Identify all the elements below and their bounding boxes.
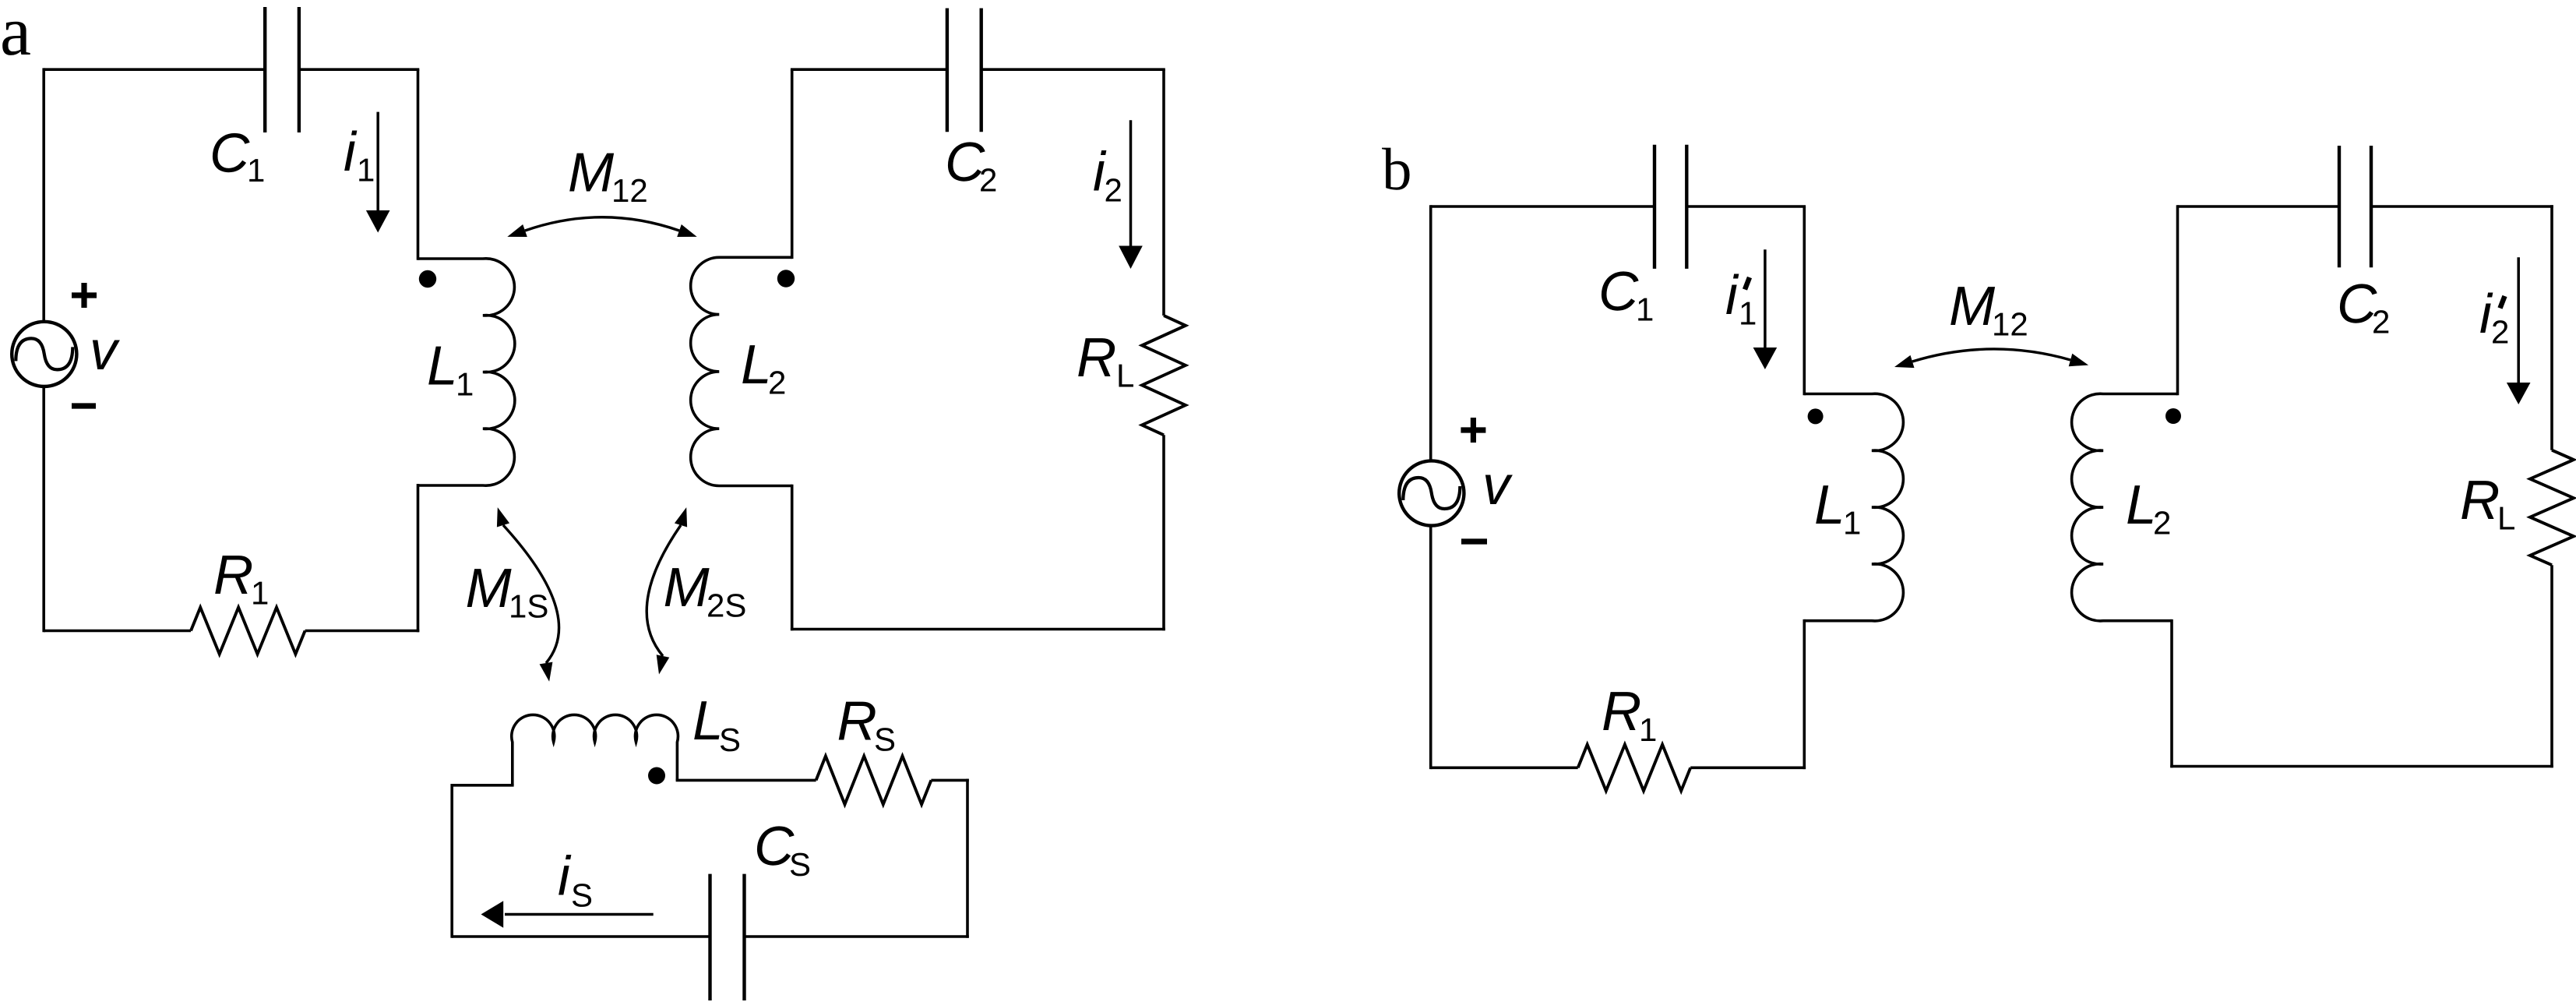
svg-text:b: b <box>1382 136 1412 203</box>
polarity + of source v <box>72 283 97 308</box>
svg-text:1: 1 <box>357 152 375 189</box>
svg-text:v: v <box>90 320 120 382</box>
svg-text:M: M <box>664 557 710 619</box>
svg-text:12: 12 <box>611 172 648 209</box>
current arrow i2 <box>1119 120 1143 269</box>
svg-text:1S: 1S <box>509 588 548 625</box>
wire loop1 left upper segment <box>42 68 45 321</box>
capacitor C1 <box>265 7 299 132</box>
wire b-loop1 left lower segment <box>1429 526 1432 770</box>
wire sensor-loop right vertical <box>966 779 969 938</box>
mutual inductance arrow M12 (figure b) <box>1894 349 2088 368</box>
wire b-loop2 top-left segment <box>2178 205 2340 208</box>
polarity dot L2 <box>777 270 795 287</box>
wire loop1 right lower segment (from L1) <box>417 484 420 632</box>
label R1 (figure b) <box>1602 681 1657 748</box>
label M1S <box>466 558 549 625</box>
panel label b <box>1382 136 1412 203</box>
wire b-loop1 right lower segment (from L1) <box>1803 619 1806 769</box>
svg-text:S: S <box>571 877 593 914</box>
wire b-loop1 left upper segment <box>1429 205 1432 460</box>
wire loop2 left lower segment (from L2) <box>791 485 794 631</box>
inductor L2 (figure b) <box>2072 393 2178 621</box>
wire sensor-loop top-right segment (to RS) <box>676 779 816 782</box>
wire sensor-loop left vertical <box>450 784 453 938</box>
wire sensor-loop bottom-right segment <box>745 935 969 938</box>
label C2 <box>945 132 997 199</box>
label LS <box>692 690 741 758</box>
wire b-loop1 right upper segment (to L1) <box>1803 206 1806 395</box>
current arrow i1 <box>366 112 390 233</box>
svg-text:R: R <box>1602 681 1641 743</box>
label M12 <box>568 142 648 209</box>
label C1 (figure b) <box>1598 261 1654 328</box>
label M2S <box>664 557 747 624</box>
svg-text:2: 2 <box>2491 314 2509 351</box>
label L2 <box>741 334 786 401</box>
svg-text:L: L <box>741 334 772 396</box>
polarity - of source v (figure b) <box>1461 538 1487 544</box>
wire loop1 bottom-left segment <box>44 630 191 633</box>
wire loop1 top-right segment <box>299 68 419 71</box>
svg-text:L: L <box>427 336 458 397</box>
svg-text:M: M <box>466 558 513 619</box>
label L2 (figure b) <box>2126 475 2171 542</box>
label i1 <box>344 122 375 189</box>
svg-text:1: 1 <box>1639 711 1657 748</box>
capacitor C2 (figure b) <box>2339 146 2371 267</box>
svg-text:2: 2 <box>2153 505 2171 542</box>
label C2 (figure b) <box>2337 273 2390 340</box>
svg-text:R: R <box>837 691 877 753</box>
wire sensor-loop right-top segment <box>931 779 968 782</box>
polarity - of source v <box>72 403 96 408</box>
label iS <box>558 846 593 914</box>
wire b-loop1 bottom-left segment <box>1431 766 1578 769</box>
label i2 <box>1093 142 1122 209</box>
wire b-loop2 bottom segment <box>2170 765 2553 768</box>
wire b-loop2 left upper segment (to L2) <box>2176 205 2180 395</box>
wire loop1 top-left segment <box>44 68 265 71</box>
polarity dot L2 (figure b) <box>2165 408 2181 424</box>
current arrow i2' <box>2507 257 2531 404</box>
svg-text:i: i <box>1725 265 1739 326</box>
label M12 (figure b) <box>1949 276 2028 343</box>
wire b-loop2 left lower segment (from L2) <box>2170 619 2173 767</box>
svg-text:S: S <box>719 722 741 758</box>
inductor L2 <box>691 257 792 485</box>
label v (figure b) <box>1482 455 1513 517</box>
label C1 <box>210 123 265 189</box>
svg-text:1: 1 <box>1739 295 1757 332</box>
svg-text:i: i <box>344 122 358 183</box>
wire b-loop1 top-right segment <box>1686 205 1806 208</box>
inductor L1 <box>418 259 515 485</box>
capacitor C1 (figure b) <box>1654 145 1686 269</box>
wire loop2 left upper segment (to L2) <box>791 69 794 259</box>
wire b-loop2 right lower segment (from RL) <box>2550 565 2553 767</box>
label L1 <box>427 336 474 403</box>
polarity dot L1 (figure b) <box>1808 408 1824 424</box>
resistor RL <box>1142 316 1186 435</box>
polarity dot L1 <box>419 270 436 288</box>
svg-text:L: L <box>1116 358 1134 394</box>
svg-text:R: R <box>1077 327 1116 389</box>
voltage source v (AC) <box>12 322 76 386</box>
label i2' <box>2479 284 2509 351</box>
svg-text:C: C <box>1598 261 1639 323</box>
svg-text:1: 1 <box>456 366 474 403</box>
wire loop1 right upper segment (to L1) <box>417 69 420 260</box>
svg-text:2S: 2S <box>707 587 746 624</box>
resistor RL (figure b) <box>2530 450 2574 566</box>
resistor R1 <box>191 608 305 654</box>
wire loop1 bottom-right segment <box>305 630 420 633</box>
svg-text:a: a <box>0 0 31 70</box>
svg-text:v: v <box>1482 455 1513 517</box>
voltage source v (AC, figure b) <box>1399 460 1464 525</box>
label L1 (figure b) <box>1814 475 1861 542</box>
wire loop2 top-left segment <box>791 68 947 71</box>
current arrow i1' <box>1753 249 1778 369</box>
svg-text:2: 2 <box>768 365 786 401</box>
svg-text:R: R <box>213 545 253 606</box>
wire sensor-loop bottom-left segment <box>452 935 710 938</box>
wire loop2 bottom segment <box>791 628 1165 631</box>
svg-text:L: L <box>1814 475 1845 536</box>
svg-text:M: M <box>1949 276 1996 337</box>
label RL <box>1077 327 1134 394</box>
svg-text:L: L <box>2497 500 2515 537</box>
polarity dot LS <box>648 767 665 785</box>
label RL (figure b) <box>2460 470 2515 537</box>
polarity + of source v (figure b) <box>1461 418 1485 443</box>
svg-text:S: S <box>874 722 896 758</box>
svg-text:L: L <box>2126 475 2157 536</box>
resistor RS <box>816 756 932 804</box>
wire loop2 right upper segment (to RL) <box>1162 69 1165 316</box>
svg-text:i: i <box>558 846 572 908</box>
svg-text:C: C <box>210 123 250 185</box>
svg-text:2: 2 <box>1105 172 1122 209</box>
wire loop2 right lower segment (from RL) <box>1162 435 1165 630</box>
svg-text:M: M <box>568 142 615 203</box>
capacitor CS <box>710 874 745 1000</box>
wire loop2 top-right segment <box>981 68 1165 71</box>
resistor R1 (figure b) <box>1578 745 1691 791</box>
mutual inductance arrow M1S <box>497 507 559 682</box>
svg-text:1: 1 <box>1843 505 1861 542</box>
label v <box>90 320 120 382</box>
current arrow iS <box>481 901 654 927</box>
capacitor C2 <box>947 9 981 132</box>
svg-text:1: 1 <box>251 575 269 612</box>
inductor L1 (figure b) <box>1804 393 1903 621</box>
svg-text:2: 2 <box>979 162 997 199</box>
wire b-loop1 bottom-right segment <box>1690 766 1806 769</box>
label R1 <box>213 545 269 612</box>
wire loop1 left lower segment <box>42 386 45 632</box>
wire b-loop2 right upper segment (to RL) <box>2550 205 2553 450</box>
mutual inductance arrow M2S <box>647 507 687 674</box>
label RS <box>837 691 897 758</box>
wire b-loop2 top-right segment <box>2371 205 2553 208</box>
svg-text:1: 1 <box>1636 291 1654 328</box>
svg-text:1: 1 <box>247 152 265 189</box>
label i1' <box>1725 265 1757 332</box>
mutual inductance arrow M12 <box>507 217 696 237</box>
label CS <box>754 816 811 883</box>
svg-text:S: S <box>789 846 811 883</box>
inductor LS <box>512 714 678 785</box>
wire sensor-loop top-left segment <box>452 784 513 787</box>
panel label a <box>0 0 31 70</box>
svg-text:2: 2 <box>2372 304 2390 340</box>
svg-text:R: R <box>2460 470 2500 531</box>
svg-text:12: 12 <box>1992 306 2028 343</box>
wire b-loop1 top-left segment <box>1431 205 1654 208</box>
